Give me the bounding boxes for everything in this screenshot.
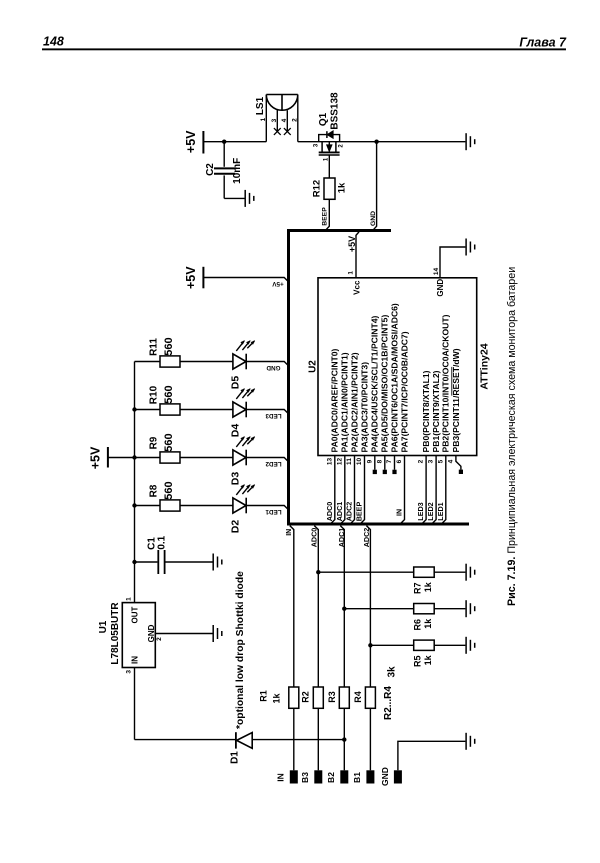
- capacitor C1 0.1: [135, 535, 213, 574]
- IC U2 ATTiny24 box: [318, 278, 477, 456]
- node: feed junction: [132, 503, 136, 507]
- U2 pin 10 wire: [361, 456, 365, 524]
- svg-text:R8: R8: [148, 484, 159, 497]
- svg-text:4: 4: [448, 459, 455, 463]
- U2 pin 9 no-connect: [373, 470, 377, 474]
- LED D5: [229, 341, 255, 390]
- svg-text:IN: IN: [286, 529, 293, 536]
- resistor R1: [289, 687, 299, 708]
- svg-text:R3: R3: [327, 691, 337, 703]
- U2 pin 7 wire: [394, 456, 396, 470]
- svg-text:OUT: OUT: [130, 606, 139, 623]
- resistor R9 560: [135, 433, 181, 463]
- svg-text:PB2(PCINT10/INT0/OC0A/CKOUT): PB2(PCINT10/INT0/OC0A/CKOUT): [441, 314, 451, 452]
- wire bus to R4/B1: [366, 526, 370, 687]
- wire R11 to D5: [180, 361, 233, 363]
- svg-text:2: 2: [292, 118, 299, 122]
- svg-text:ADC0: ADC0: [325, 502, 334, 522]
- U2 pin 6 wire: [401, 456, 405, 524]
- svg-text:12: 12: [336, 458, 343, 466]
- resistor R2: [313, 687, 323, 708]
- wire U1 to D1 cathode: [135, 739, 236, 741]
- resistor R10 560: [135, 385, 181, 415]
- U2 pin 9 wire: [374, 456, 376, 470]
- power +5V (left): [89, 446, 108, 469]
- svg-text:1k: 1k: [271, 693, 281, 704]
- LS1 pin numbers: [260, 117, 299, 122]
- svg-text:C2: C2: [205, 163, 216, 176]
- wire GND pad to ground: [398, 741, 466, 770]
- svg-text:PB0(PCINT8/XTAL1): PB0(PCINT8/XTAL1): [421, 370, 431, 452]
- svg-text:9: 9: [366, 459, 373, 463]
- svg-text:+5V: +5V: [272, 280, 284, 287]
- svg-text:GND: GND: [147, 624, 156, 642]
- svg-text:R7: R7: [412, 582, 422, 594]
- power +5V (middle, Vcc feed): [184, 266, 203, 289]
- U2 pin 7 no-connect: [392, 470, 396, 474]
- resistor R11 560: [135, 337, 181, 367]
- resistor R7 1k: [412, 567, 434, 594]
- wire LS1 pin2 to Q1 to GND: [298, 141, 466, 143]
- svg-text:U2: U2: [308, 360, 319, 373]
- wire D4 cathode to bus (LED3): [246, 410, 288, 414]
- svg-text:L78L05BUTR: L78L05BUTR: [110, 602, 121, 665]
- wire U2 pin 14 to ground: [440, 247, 465, 278]
- svg-text:R2: R2: [301, 691, 311, 703]
- node: junction ADC1 tap: [342, 607, 346, 611]
- RESET overline: [451, 367, 453, 396]
- wire R5 to ground: [434, 644, 465, 646]
- U2 pin 4 wire: [456, 456, 461, 470]
- svg-text:R5: R5: [412, 656, 422, 668]
- svg-text:1k: 1k: [423, 618, 433, 629]
- svg-text:B2: B2: [326, 772, 336, 783]
- svg-text:560: 560: [163, 337, 175, 355]
- LED D2: [229, 485, 255, 534]
- wire bus to R2/B3: [314, 526, 318, 687]
- svg-text:BEEP: BEEP: [322, 207, 329, 226]
- svg-text:8: 8: [376, 459, 383, 463]
- svg-text:3: 3: [271, 118, 278, 122]
- ground (U1): [213, 625, 222, 642]
- wire C2 to ground: [224, 197, 245, 199]
- node: junction +5V/C2: [222, 140, 226, 144]
- transistor Q1 BSS138: [313, 92, 344, 178]
- wire tap to R7: [318, 571, 413, 573]
- svg-text:Q1: Q1: [318, 112, 329, 126]
- svg-text:1k: 1k: [423, 654, 433, 665]
- node: junction ADC0 tap: [316, 570, 320, 574]
- terminal pad B1: [366, 770, 374, 783]
- terminal pad B2: [340, 770, 348, 783]
- svg-text:ADC1: ADC1: [335, 502, 344, 522]
- terminal pad B3: [314, 770, 322, 783]
- wire D3 cathode to bus (LED2): [246, 458, 288, 462]
- ground (R5): [466, 637, 475, 654]
- wire R6 to ground: [434, 608, 465, 610]
- svg-text:IN: IN: [397, 509, 404, 516]
- svg-text:ADC0: ADC0: [309, 528, 318, 548]
- svg-text:560: 560: [163, 433, 175, 451]
- svg-text:U1: U1: [98, 620, 109, 633]
- svg-text:IN: IN: [275, 773, 285, 782]
- ground (GND pad): [466, 733, 475, 750]
- feed wire (R8-R11 column): [134, 362, 136, 603]
- svg-text:R11: R11: [148, 338, 159, 356]
- svg-text:2: 2: [418, 459, 425, 463]
- svg-text:10: 10: [356, 458, 363, 466]
- U2 pin 4 no-connect: [459, 470, 463, 474]
- svg-text:PA4(ADC4/USCK/SCL/T1/PCINT4): PA4(ADC4/USCK/SCL/T1/PCINT4): [370, 315, 380, 452]
- svg-text:148: 148: [43, 35, 64, 49]
- wire +5V to feed line: [108, 457, 135, 459]
- svg-text:6: 6: [396, 459, 403, 463]
- LS1 pin 3 no-connect: [274, 128, 281, 135]
- svg-text:LED1: LED1: [265, 508, 282, 515]
- LED D3: [229, 437, 255, 486]
- wire R7 to ground: [434, 571, 465, 573]
- loudspeaker LS1: [255, 95, 298, 142]
- svg-text:10mF: 10mF: [232, 158, 243, 184]
- svg-text:PA2(ADC2/AIN1/PCINT2): PA2(ADC2/AIN1/PCINT2): [349, 352, 359, 452]
- node: feed junction: [132, 455, 136, 459]
- wire tap to R6: [344, 608, 413, 610]
- svg-text:PA5(AD5/DO/MISO/OC1B/PCINT5): PA5(AD5/DO/MISO/OC1B/PCINT5): [380, 315, 390, 453]
- svg-text:0.1: 0.1: [156, 535, 167, 549]
- svg-text:1: 1: [347, 271, 354, 275]
- power +5V (top): [184, 130, 203, 154]
- svg-text:ATTiny24: ATTiny24: [478, 343, 490, 389]
- wire D2 cathode to bus (LED1): [246, 506, 288, 510]
- svg-text:LED2: LED2: [265, 460, 282, 467]
- U2 pin 8 no-connect: [383, 470, 387, 474]
- resistor R4: [365, 687, 375, 708]
- svg-text:LED3: LED3: [416, 502, 425, 520]
- svg-text:IN: IN: [130, 656, 139, 664]
- svg-text:13: 13: [326, 458, 333, 466]
- svg-text:GND: GND: [380, 767, 390, 786]
- ground (U2 GND pin): [466, 239, 475, 256]
- wire U1 GND pin to ground: [155, 633, 212, 635]
- resistor R3: [339, 687, 349, 708]
- svg-text:BSS138: BSS138: [329, 92, 340, 130]
- wire bus to R1/IN: [290, 526, 294, 687]
- LED D4: [229, 389, 255, 438]
- wire U1 IN down: [134, 668, 136, 740]
- svg-text:LED1: LED1: [436, 502, 445, 520]
- svg-text:D3: D3: [229, 472, 241, 486]
- svg-text:R4: R4: [353, 691, 363, 703]
- wire R10 to D4: [180, 409, 233, 411]
- U2 pin 8 wire: [384, 456, 386, 470]
- svg-text:R9: R9: [148, 436, 159, 449]
- wire D5 cathode to bus (GND): [246, 362, 288, 366]
- svg-text:11: 11: [346, 458, 353, 465]
- U2 pin 2 wire: [422, 456, 426, 524]
- capacitor C2 10mF: [205, 142, 243, 199]
- svg-text:D5: D5: [229, 376, 241, 390]
- svg-text:3k: 3k: [387, 666, 398, 678]
- wire tap to R5: [370, 644, 413, 646]
- ground (C1): [213, 554, 222, 571]
- U2 pin 5 wire: [442, 456, 446, 524]
- ground (C2): [245, 190, 254, 207]
- LS1 pin 4 no-connect: [284, 128, 291, 135]
- svg-text:BEEP: BEEP: [355, 502, 364, 522]
- svg-text:LS1: LS1: [255, 96, 266, 115]
- svg-text:+5V: +5V: [347, 236, 357, 252]
- wire bus to U2 Vcc pin 1: [356, 232, 359, 278]
- svg-text:GND: GND: [266, 364, 280, 371]
- ground (R7): [466, 564, 475, 581]
- U2 pin 12 wire: [341, 456, 345, 524]
- svg-text:R10: R10: [148, 385, 159, 404]
- header rule: [42, 48, 566, 50]
- node: junction C1: [132, 560, 136, 564]
- U2 pin 13 wire: [331, 456, 335, 524]
- wire bus to R3/B2: [340, 526, 344, 687]
- svg-text:LED2: LED2: [426, 502, 435, 520]
- resistor R5 1k: [412, 640, 434, 667]
- diode D1: [229, 732, 252, 764]
- svg-text:4: 4: [281, 118, 288, 122]
- svg-text:D2: D2: [229, 520, 241, 534]
- svg-text:PA6(PCINT6/OC1A/SDA/MOSI/ADC6): PA6(PCINT6/OC1A/SDA/MOSI/ADC6): [389, 303, 399, 452]
- svg-text:560: 560: [163, 385, 175, 403]
- svg-text:B1: B1: [352, 772, 362, 783]
- label R1 1k: [258, 690, 281, 703]
- svg-text:7: 7: [386, 459, 393, 463]
- node: junction Q1 source: [374, 140, 378, 144]
- terminal pad GND: [394, 770, 402, 783]
- svg-text:2: 2: [156, 637, 163, 641]
- svg-text:Глава 7: Глава 7: [519, 36, 567, 50]
- terminal pad IN: [290, 770, 298, 783]
- wire R8 to D2: [180, 505, 233, 507]
- resistor R6 1k: [412, 604, 434, 631]
- resistor R8 560: [135, 481, 181, 511]
- svg-text:5: 5: [437, 459, 444, 463]
- svg-text:+5V: +5V: [184, 130, 198, 153]
- IC U1 L78L05BUTR: [98, 597, 163, 674]
- svg-text:R2...R4: R2...R4: [383, 686, 394, 720]
- U2 pin 11 wire: [351, 456, 355, 524]
- bus (thick): [289, 231, 470, 525]
- svg-text:D4: D4: [229, 424, 241, 438]
- svg-text:14: 14: [433, 268, 440, 276]
- node: feed junction: [132, 407, 136, 411]
- svg-text:R1: R1: [258, 690, 268, 702]
- svg-text:Vcc: Vcc: [352, 280, 361, 295]
- svg-text:B3: B3: [300, 772, 310, 783]
- svg-text:ADC2: ADC2: [345, 502, 354, 522]
- svg-text:1: 1: [260, 117, 267, 121]
- svg-text:1: 1: [125, 597, 132, 601]
- svg-text:+5V: +5V: [89, 446, 103, 469]
- svg-text:*optional low drop Shottki dio: *optional low drop Shottki diode: [235, 571, 246, 729]
- svg-text:LED3: LED3: [265, 412, 282, 419]
- node: junction ADC2 tap: [368, 643, 372, 647]
- svg-text:GND: GND: [370, 211, 377, 226]
- svg-text:3: 3: [126, 670, 133, 674]
- svg-text:R6: R6: [412, 619, 422, 631]
- svg-text:PA0(ADC0/AREF/PCINT0): PA0(ADC0/AREF/PCINT0): [330, 348, 340, 452]
- node: junction D1/B2: [342, 737, 346, 741]
- svg-text:PB3(PCINT11/RESET/dW): PB3(PCINT11/RESET/dW): [451, 348, 461, 452]
- ground (Q1 source): [466, 133, 475, 150]
- ground (R6): [466, 600, 475, 617]
- wire D1 anode to B2 line: [252, 739, 344, 741]
- wire +5V bar to bus: [203, 278, 288, 282]
- wire R9 to D3: [180, 457, 233, 459]
- svg-text:ADC1: ADC1: [337, 528, 346, 548]
- svg-text:PA3(ADC3/T0/PCINT3): PA3(ADC3/T0/PCINT3): [359, 362, 369, 453]
- svg-text:PB1(PCINT9/XTAL2): PB1(PCINT9/XTAL2): [431, 370, 441, 452]
- svg-text:R12: R12: [312, 180, 323, 197]
- U2 pin 3 wire: [432, 456, 436, 524]
- svg-text:3: 3: [428, 459, 435, 463]
- svg-text:PA7(PCINT7/ICP/OC0B/ADC7): PA7(PCINT7/ICP/OC0B/ADC7): [399, 331, 409, 452]
- svg-text:GND: GND: [436, 279, 445, 297]
- svg-text:ADC2: ADC2: [362, 528, 371, 548]
- wire +5V to LS1 pin1: [203, 141, 266, 143]
- svg-text:+5V: +5V: [184, 266, 198, 289]
- svg-text:PA1(ADC1/AIN0/PCINT1): PA1(ADC1/AIN0/PCINT1): [340, 352, 350, 452]
- resistor R12 1k: [312, 178, 348, 199]
- svg-text:1k: 1k: [423, 581, 433, 592]
- svg-text:1k: 1k: [336, 182, 347, 193]
- svg-text:D1: D1: [229, 751, 240, 764]
- wire Q1 source to bus (GND): [373, 142, 377, 231]
- wire R12 to bus (BEEP): [326, 199, 330, 230]
- svg-text:Рис. 7.19. Принципиальная элек: Рис. 7.19. Принципиальная электрическая …: [506, 267, 518, 606]
- svg-text:560: 560: [163, 481, 175, 499]
